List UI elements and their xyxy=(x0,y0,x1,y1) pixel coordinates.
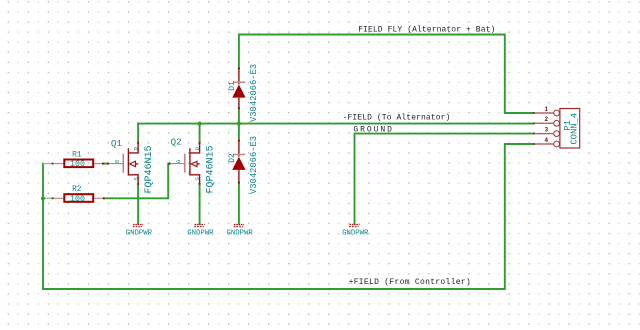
svg-text:Q1: Q1 xyxy=(111,138,123,149)
svg-text:V3042066-E3: V3042066-E3 xyxy=(249,64,259,122)
svg-text:GNDPWR: GNDPWR xyxy=(126,229,153,237)
svg-text:GNDPWR: GNDPWR xyxy=(187,229,214,237)
svg-text:-FIELD (To Alternator): -FIELD (To Alternator) xyxy=(343,113,451,122)
svg-text:GNDPWR: GNDPWR xyxy=(342,229,369,237)
svg-text:+FIELD (From Controller): +FIELD (From Controller) xyxy=(349,278,471,287)
svg-text:CONN_4: CONN_4 xyxy=(570,113,580,145)
svg-text:D1: D1 xyxy=(228,81,237,91)
svg-text:4: 4 xyxy=(545,137,549,144)
svg-text:GNDPWR: GNDPWR xyxy=(227,229,254,237)
svg-text:1: 1 xyxy=(545,106,549,113)
svg-text:R2: R2 xyxy=(72,186,82,194)
svg-text:GROUND: GROUND xyxy=(353,126,394,135)
svg-text:Q2: Q2 xyxy=(171,137,182,148)
svg-text:100: 100 xyxy=(70,195,85,204)
svg-text:2: 2 xyxy=(545,116,549,123)
svg-text:R1: R1 xyxy=(72,152,82,160)
svg-text:3: 3 xyxy=(545,126,549,133)
svg-text:FIELD FLY (Alternator + Bat): FIELD FLY (Alternator + Bat) xyxy=(358,26,495,35)
svg-text:FQP46N15: FQP46N15 xyxy=(144,145,155,193)
svg-text:D2: D2 xyxy=(228,153,237,163)
svg-text:FQP46N15: FQP46N15 xyxy=(206,145,217,193)
svg-text:V3042066-E3: V3042066-E3 xyxy=(249,136,259,194)
svg-text:100: 100 xyxy=(70,160,85,169)
